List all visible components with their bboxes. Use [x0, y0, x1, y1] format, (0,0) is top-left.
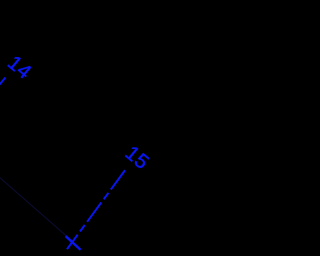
construction line 15 (dash-dot)	[67, 169, 126, 250]
X point marker	[66, 236, 81, 250]
faint navy line	[0, 176, 73, 242]
construction line 14 (stub at left edge)	[0, 78, 6, 101]
